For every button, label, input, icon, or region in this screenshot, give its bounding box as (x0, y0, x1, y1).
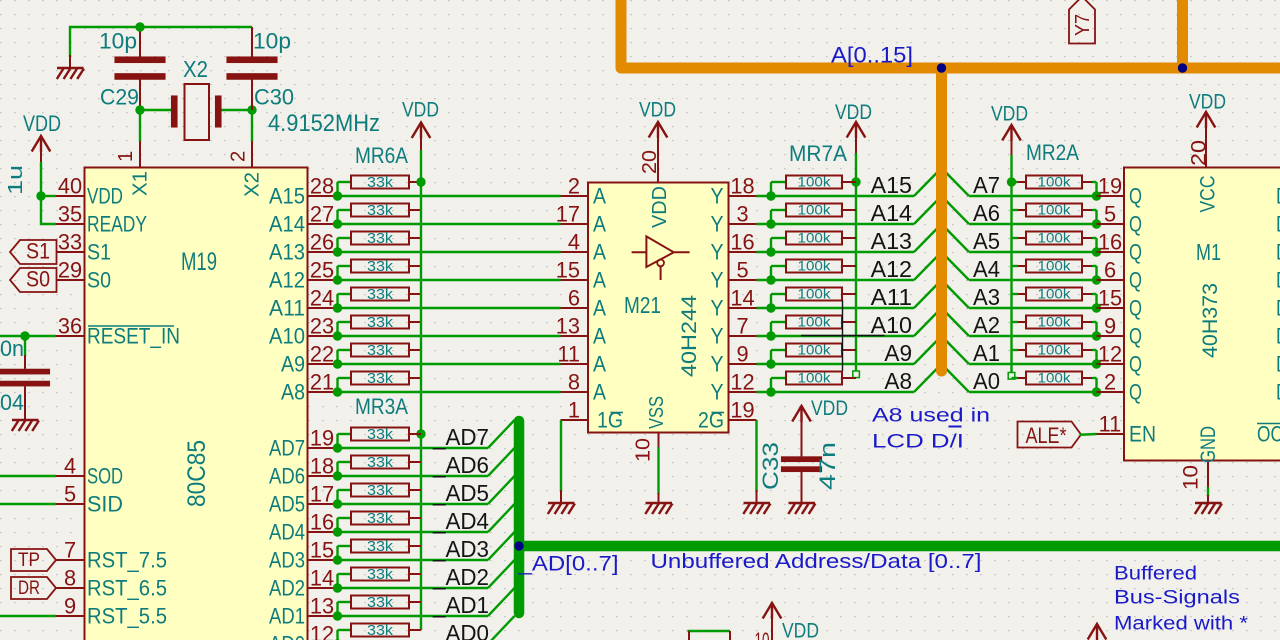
resistor 33k pull-up (351, 316, 409, 329)
junction (766, 247, 775, 256)
svg-text:17: 17 (310, 482, 334, 507)
svg-text:8: 8 (64, 566, 76, 591)
M21 pin 12 Y (729, 391, 757, 393)
svg-text:16: 16 (730, 230, 754, 255)
wire (336, 266, 338, 280)
svg-text:15: 15 (1098, 286, 1122, 311)
wire (969, 279, 1097, 281)
component at bottom edge (partial) (688, 630, 731, 632)
svg-text:A15: A15 (871, 172, 912, 198)
wire (336, 630, 338, 640)
wire (969, 223, 1097, 225)
svg-text:VDD: VDD (639, 99, 676, 122)
cursor (842, 300, 844, 371)
junction (333, 639, 342, 640)
svg-text:VDD: VDD (23, 111, 61, 136)
junction (416, 177, 425, 186)
svg-text:33k: 33k (367, 287, 394, 303)
resistor MR7A 100k A10 (786, 316, 842, 329)
svg-text:OC: OC (1257, 422, 1280, 447)
svg-text:5: 5 (736, 258, 748, 283)
bus entry (488, 420, 515, 448)
svg-text:33k: 33k (367, 539, 394, 555)
svg-text:A3: A3 (973, 284, 1000, 310)
pin 16 AD4 (308, 531, 337, 533)
svg-text:VCC: VCC (1197, 176, 1220, 213)
wire (770, 210, 772, 224)
pin 2 X2 (251, 141, 253, 168)
svg-text:1: 1 (568, 398, 580, 423)
wire (338, 587, 489, 589)
wire (338, 559, 489, 561)
IC M1 40H373 body (1124, 168, 1280, 461)
wire (770, 378, 772, 392)
svg-text:Buffered: Buffered (1114, 563, 1197, 585)
M21 pin 4 A (561, 251, 589, 253)
svg-text:VDD: VDD (649, 186, 671, 228)
wire (757, 251, 915, 253)
svg-text:1u: 1u (5, 165, 27, 195)
svg-text:MR3A: MR3A (355, 394, 408, 419)
bus entry (914, 364, 942, 392)
svg-text:100k: 100k (798, 175, 831, 190)
svg-text:2: 2 (568, 174, 580, 199)
svg-text:Y: Y (711, 184, 724, 209)
svg-text:2: 2 (1104, 370, 1116, 395)
pin 4 SOD (56, 475, 85, 477)
resistor 33k pull-up (351, 428, 409, 441)
svg-text:100k: 100k (1038, 259, 1071, 274)
resistor 33k pull-up (351, 176, 409, 189)
pin 23 A10 (308, 335, 337, 337)
wire (336, 210, 338, 224)
svg-text:100k: 100k (1038, 343, 1071, 358)
junction (766, 219, 775, 228)
svg-text:Y: Y (711, 212, 724, 237)
svg-text:28: 28 (310, 174, 334, 199)
M21 pin 13 A (561, 335, 589, 337)
wire (0, 503, 56, 505)
svg-text:40: 40 (58, 174, 82, 199)
M21 pin 16 Y (729, 251, 757, 253)
svg-text:VDD: VDD (991, 103, 1028, 126)
pin 17 AD5 (308, 503, 337, 505)
svg-text:VSS: VSS (646, 396, 668, 429)
svg-text:AD0: AD0 (269, 632, 305, 640)
svg-text:33k: 33k (367, 259, 394, 275)
wire (969, 307, 1097, 309)
wire (140, 109, 171, 111)
M21 pin 7 Y (729, 335, 757, 337)
pin 13 AD1 (308, 615, 337, 617)
svg-text:16: 16 (1098, 230, 1122, 255)
svg-text:6: 6 (568, 286, 580, 311)
svg-text:26: 26 (310, 230, 334, 255)
svg-text:_AD0: _AD0 (432, 620, 489, 640)
junction (766, 331, 775, 340)
svg-text:Q: Q (1129, 324, 1142, 349)
svg-text:VDD: VDD (87, 184, 123, 209)
svg-text:VDD: VDD (835, 101, 872, 124)
global label S1 (10, 240, 57, 264)
wire (0, 475, 56, 477)
bus _AD[0..7] vertical (514, 421, 525, 613)
junction (333, 555, 342, 564)
svg-text:7: 7 (736, 314, 748, 339)
svg-text:X2: X2 (183, 56, 208, 82)
svg-text:7: 7 (64, 538, 76, 563)
pin 35 READY (56, 223, 85, 225)
svg-text:10: 10 (633, 438, 655, 462)
svg-text:11: 11 (1099, 412, 1122, 437)
wire (969, 363, 1097, 365)
wire (757, 363, 915, 365)
svg-text:100k: 100k (1038, 287, 1071, 302)
junction (333, 303, 342, 312)
svg-text:SID: SID (87, 492, 123, 517)
junction (333, 499, 342, 508)
resistor 33k pull-up (351, 512, 409, 525)
svg-text:SOD: SOD (87, 464, 123, 489)
wire (336, 462, 338, 476)
svg-text:A4: A4 (973, 256, 1000, 282)
wire (70, 27, 252, 57)
svg-text:A6: A6 (973, 200, 1000, 226)
IC U-M19 80C85 body (85, 168, 308, 640)
svg-text:21: 21 (310, 370, 334, 395)
wire (41, 196, 56, 224)
svg-text:Q: Q (1129, 352, 1142, 377)
wire (1092, 265, 1097, 267)
junction (333, 191, 342, 200)
svg-text:20: 20 (1188, 140, 1211, 166)
svg-text:A12: A12 (871, 256, 912, 282)
svg-text:100k: 100k (798, 287, 831, 302)
wire (560, 420, 562, 492)
bus junction (1178, 63, 1187, 72)
svg-text:A: A (593, 268, 606, 293)
resistor MR2A 100k A2 (1012, 321, 1019, 323)
svg-text:Y: Y (711, 324, 724, 349)
junction (1092, 219, 1101, 228)
svg-text:A12: A12 (269, 268, 305, 293)
junction (333, 331, 342, 340)
svg-text:D: D (1276, 212, 1280, 237)
pin 15 AD3 (308, 559, 337, 561)
svg-text:D: D (1276, 296, 1280, 321)
bus vertical right (1177, 0, 1188, 68)
junction (1092, 387, 1101, 396)
wire (770, 238, 772, 252)
svg-text:A14: A14 (269, 212, 305, 237)
pin 9 RST_5.5 (56, 615, 85, 617)
M21 pin 1 1G (561, 419, 589, 421)
pin 22 A9 (308, 363, 337, 365)
svg-text:33k: 33k (367, 427, 394, 443)
svg-text:19: 19 (310, 426, 334, 451)
svg-text:_AD2: _AD2 (432, 564, 489, 590)
wire (969, 335, 1097, 337)
M1 pin 2 Q (1097, 391, 1125, 393)
svg-text:A11: A11 (269, 296, 305, 321)
pin 25 A12 (308, 279, 337, 281)
wire VDD rail (420, 150, 422, 630)
ground (69, 55, 71, 68)
svg-text:A1: A1 (973, 340, 1000, 366)
svg-text:_AD[0..7]: _AD[0..7] (517, 553, 618, 576)
svg-text:A: A (593, 296, 606, 321)
svg-text:Y: Y (711, 268, 724, 293)
svg-text:C30: C30 (254, 85, 294, 110)
junction (333, 359, 342, 368)
svg-text:RST_7.5: RST_7.5 (87, 548, 167, 573)
svg-text:13: 13 (310, 594, 334, 619)
svg-text:Y: Y (711, 352, 724, 377)
svg-text:MR7A: MR7A (789, 141, 847, 166)
bus entry (488, 532, 515, 560)
svg-text:TP: TP (18, 549, 40, 571)
svg-text:9: 9 (64, 594, 76, 619)
svg-text:A11: A11 (871, 284, 912, 310)
resistor MR2A 100k A3 (1012, 293, 1019, 295)
svg-text:D: D (1276, 240, 1280, 265)
M21 pin 9 Y (729, 363, 757, 365)
svg-text:A: A (593, 324, 606, 349)
bus entry (488, 476, 515, 504)
svg-text:18: 18 (310, 454, 334, 479)
pin 24 A11 (308, 307, 337, 309)
pin 5 SID (56, 503, 85, 505)
wire (757, 307, 915, 309)
svg-text:A: A (593, 212, 606, 237)
svg-text:14: 14 (730, 286, 754, 311)
resistor 33k pull-up (351, 232, 409, 245)
wire (0, 615, 56, 617)
unconnected end (853, 371, 860, 378)
wire (41, 195, 56, 197)
pin 18 AD6 (308, 475, 337, 477)
junction (333, 275, 342, 284)
pin 21 A8 (308, 391, 337, 393)
svg-text:S0: S0 (87, 268, 111, 293)
svg-text:X1: X1 (130, 171, 152, 196)
svg-text:Q: Q (1129, 240, 1142, 265)
svg-text:A14: A14 (871, 200, 912, 226)
junction (333, 611, 342, 620)
svg-text:80C85: 80C85 (183, 440, 211, 507)
svg-text:36: 36 (58, 314, 82, 339)
pin 7 RST_7.5 (56, 559, 85, 561)
resistor MR2A 100k A6 (1012, 209, 1019, 211)
svg-text:33k: 33k (367, 203, 394, 219)
global label ALE* (1018, 422, 1082, 448)
wire (336, 294, 338, 308)
svg-text:X2: X2 (242, 172, 264, 197)
wire (757, 223, 915, 225)
svg-text:2G: 2G (698, 408, 724, 433)
svg-text:AD2: AD2 (269, 576, 305, 601)
wire (969, 391, 1097, 393)
wire (338, 615, 489, 617)
wire (336, 546, 338, 560)
svg-text:RST_5.5: RST_5.5 (87, 604, 167, 629)
svg-text:C29: C29 (100, 85, 139, 110)
svg-text:100k: 100k (798, 231, 831, 246)
junction (766, 191, 775, 200)
bus entry (942, 336, 970, 364)
wire (770, 350, 772, 364)
junction (766, 387, 775, 396)
svg-text:D: D (1276, 324, 1280, 349)
wire (1092, 293, 1097, 295)
pin 40 VDD (56, 195, 85, 197)
svg-text:Y: Y (711, 240, 724, 265)
svg-text:12: 12 (730, 370, 754, 395)
bus A[0..15] vertical drop (936, 68, 947, 371)
svg-text:33k: 33k (367, 595, 394, 611)
svg-text:40H244: 40H244 (678, 295, 701, 377)
pin 29 S0 (56, 279, 85, 281)
resistor 33k pull-up (351, 288, 409, 301)
wire (139, 110, 141, 141)
resistor MR2A 100k A1 (1012, 349, 1019, 351)
svg-text:_AD6: _AD6 (432, 452, 489, 478)
svg-text:12: 12 (310, 622, 334, 640)
resistor 33k pull-up (351, 624, 409, 637)
svg-text:1G: 1G (597, 408, 623, 433)
wire (338, 195, 561, 197)
svg-text:100k: 100k (798, 371, 831, 386)
junction (851, 177, 860, 186)
svg-text:M1: M1 (1196, 239, 1221, 265)
resistor 33k pull-up (351, 540, 409, 553)
M21 pin 8 A (561, 391, 589, 393)
wire (757, 391, 915, 393)
junction (20, 331, 29, 340)
svg-text:A: A (593, 240, 606, 265)
svg-text:33k: 33k (367, 315, 394, 331)
svg-text:A5: A5 (973, 228, 1000, 254)
pin 19 AD7 (308, 447, 337, 449)
svg-text:D: D (1276, 268, 1280, 293)
svg-text:Q: Q (1129, 296, 1142, 321)
M1 pin 15 Q (1097, 307, 1125, 309)
svg-text:_AD1: _AD1 (432, 592, 489, 618)
wire (770, 294, 772, 308)
svg-text:A7: A7 (973, 172, 1000, 198)
ground (756, 490, 758, 503)
capacitor C30 (251, 27, 253, 57)
svg-text:10: 10 (1180, 465, 1203, 490)
junction (766, 359, 775, 368)
svg-text:25: 25 (310, 258, 334, 283)
resistor 33k pull-up (351, 260, 409, 273)
bus entry (942, 196, 970, 224)
svg-text:_AD3: _AD3 (432, 536, 489, 562)
svg-text:A: A (593, 184, 606, 209)
svg-text:Q: Q (1129, 212, 1142, 237)
svg-text:1: 1 (115, 151, 137, 162)
bus junction (514, 541, 523, 550)
svg-text:33k: 33k (367, 567, 394, 583)
junction (1092, 275, 1101, 284)
svg-text:33k: 33k (367, 371, 394, 387)
resistor MR7A 100k A11 (786, 288, 842, 301)
wire (40, 162, 42, 196)
resistor MR7A 100k A15 (786, 176, 842, 189)
svg-text:AD3: AD3 (269, 548, 305, 573)
junction (36, 191, 45, 200)
junction (333, 583, 342, 592)
svg-text:22: 22 (310, 342, 334, 367)
M1 pin 10 GND (1207, 461, 1209, 489)
svg-text:VDD: VDD (1189, 91, 1226, 114)
svg-text:18: 18 (730, 174, 754, 199)
bus entry (942, 364, 970, 392)
junction (333, 527, 342, 536)
wire (336, 602, 338, 616)
wire (336, 434, 338, 448)
wire (757, 335, 915, 337)
wire (338, 223, 561, 225)
wire (222, 109, 253, 111)
M1 pin 6 Q (1097, 279, 1125, 281)
svg-text:M19: M19 (181, 249, 217, 276)
wire (338, 391, 561, 393)
svg-text:4.9152MHz: 4.9152MHz (268, 110, 380, 137)
wire (338, 447, 489, 449)
svg-text:MR6A: MR6A (355, 143, 408, 168)
wire (1092, 181, 1097, 183)
bus entry (488, 616, 515, 640)
junction (416, 429, 425, 438)
bus entry (942, 252, 970, 280)
capacitor C29 (139, 27, 141, 57)
svg-text:_AD5: _AD5 (432, 480, 489, 506)
svg-text:29: 29 (58, 258, 82, 283)
svg-text:A8 used in: A8 used in (872, 405, 990, 427)
svg-text:17: 17 (556, 202, 580, 227)
svg-text:9: 9 (1104, 314, 1116, 339)
svg-text:100k: 100k (798, 203, 831, 218)
svg-text:100k: 100k (798, 315, 831, 330)
svg-text:100k: 100k (1038, 175, 1071, 190)
wire (338, 307, 561, 309)
bus entry (488, 448, 515, 476)
capacitor C33 47n (781, 456, 822, 462)
svg-text:Y: Y (711, 380, 724, 405)
resistor MR7A 100k A13 (786, 232, 842, 245)
wire (336, 350, 338, 364)
resistor MR2A 100k A0 (1012, 377, 1019, 379)
svg-text:23: 23 (310, 314, 334, 339)
svg-text:A8: A8 (884, 368, 912, 394)
bus entry (914, 252, 942, 280)
wire (336, 490, 338, 504)
bus entry (914, 224, 942, 252)
M21 pin 19 2G (729, 419, 757, 421)
svg-text:A15: A15 (269, 184, 305, 209)
pin 28 A15 (308, 195, 337, 197)
svg-text:A9: A9 (281, 352, 305, 377)
svg-text:33k: 33k (367, 455, 394, 471)
svg-text:LCD D/I: LCD D/I (872, 431, 964, 453)
svg-text:0n: 0n (0, 336, 24, 361)
buffer symbol (632, 236, 690, 267)
pin 33 S1 (56, 251, 85, 253)
wire (770, 182, 772, 196)
crystal X2 (171, 96, 178, 128)
